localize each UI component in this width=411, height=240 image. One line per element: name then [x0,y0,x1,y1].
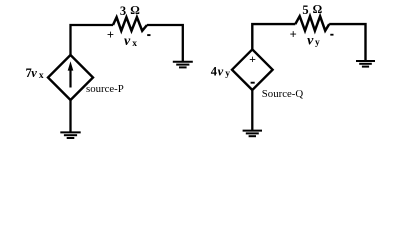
label: 4vy controlling value [211,65,230,79]
svg-text:Ω: Ω [313,2,322,16]
label: 7vx controlling value [26,66,44,81]
label: Source-Q [262,88,304,100]
ground: right circuit right [356,61,375,67]
svg-text:5: 5 [302,3,308,17]
arrow inside current source [68,61,74,87]
svg-text:source-P: source-P [86,83,124,95]
svg-text:Ω: Ω [130,3,139,17]
label: 3 ohm [120,3,140,18]
label: vx across 3-ohm resistor [124,34,137,49]
svg-text:v: v [124,34,131,49]
svg-text:+: + [249,52,256,66]
resistor 5-ohm zigzag [295,16,329,31]
wire: right circuit, source top to top-left corner [252,24,295,49]
label: vy across 5-ohm resistor [307,34,320,49]
svg-text:y: y [315,38,320,48]
label: - polarity right of 3-ohm resistor [147,34,150,36]
svg-text:v: v [218,65,224,79]
wire: right circuit, source bottom to ground [251,90,253,130]
label: + inside voltage source [249,52,256,66]
svg-text:y: y [225,69,230,79]
wire: left circuit, source bottom to ground [69,100,71,132]
ground: left circuit bottom [60,132,80,138]
ground: right circuit bottom [243,131,262,137]
svg-text:v: v [307,34,314,49]
resistor 3-ohm zigzag [113,17,147,31]
label: + polarity left of 3-ohm resistor [107,28,114,42]
wire: left circuit, source top to top-left corner [71,25,114,55]
label: - polarity right of 5-ohm resistor [330,34,333,36]
wire: right circuit, resistor right to corner, down to ground [329,24,365,61]
svg-text:x: x [39,71,44,81]
svg-text:+: + [290,28,297,42]
svg-text:x: x [132,39,137,49]
label: - inside voltage source [251,82,255,84]
dependent current source diamond (source-P) [48,55,93,100]
label: 5 ohm [302,2,322,17]
label: + polarity left of 5-ohm resistor [290,28,297,42]
ground: left circuit right [173,62,193,68]
label: source-P [86,83,124,95]
svg-text:3: 3 [120,4,126,18]
svg-text:+: + [107,28,114,42]
svg-text:Source-Q: Source-Q [262,88,304,100]
dependent voltage source diamond (Source-Q) [232,49,273,90]
wire: left circuit, resistor right to corner, down to ground [147,25,183,62]
svg-text:v: v [31,66,37,80]
